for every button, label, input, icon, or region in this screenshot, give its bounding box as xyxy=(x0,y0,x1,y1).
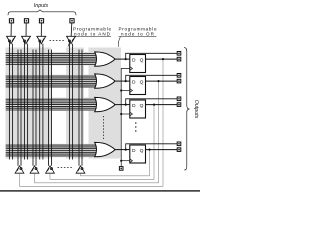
array vertical pair from F4 xyxy=(78,50,80,166)
row strip G1 xyxy=(6,52,122,65)
row strip G4 xyxy=(6,144,122,158)
clock branch FF2 xyxy=(121,90,130,92)
wire OR4 to D4 xyxy=(115,149,130,151)
OR column shading xyxy=(89,48,122,159)
dashed line between O3 O4 xyxy=(102,116,104,140)
output pin 1b xyxy=(177,57,181,61)
wire OR2 to D2 xyxy=(115,80,130,82)
output pin 3b xyxy=(177,103,181,107)
wire OR3 to D3 xyxy=(115,104,130,106)
input buffer B2 xyxy=(22,36,31,43)
svg-text:node to OR: node to OR xyxy=(121,31,155,36)
feedback buffer F1 xyxy=(15,166,24,173)
junction Q1 tap xyxy=(162,58,164,60)
wire pin3 stem xyxy=(40,23,42,40)
flip-flop FF3 xyxy=(130,100,146,118)
array vertical pair from B1 xyxy=(8,41,10,160)
svg-text:D: D xyxy=(132,148,136,154)
svg-text:Q: Q xyxy=(140,148,144,154)
input buffer B1 xyxy=(7,36,16,43)
wire tap up to pinA1 xyxy=(126,53,177,59)
flip-flop FF2 xyxy=(130,77,146,95)
wire tap up to pinA4 xyxy=(126,144,177,150)
flip-flop FF1 xyxy=(130,55,146,73)
dashes between B3 and B4 xyxy=(50,40,65,42)
junction Q4 tap xyxy=(148,149,150,151)
junction Q3 tap xyxy=(153,104,155,106)
feedback buffer F3 xyxy=(46,166,55,173)
dots between FF3 FF4 xyxy=(135,122,136,131)
svg-text:Inputs: Inputs xyxy=(34,3,49,9)
feedback wire FF1 xyxy=(20,59,164,186)
wire OR1 to D1 xyxy=(115,58,130,60)
feedback wire FF2 xyxy=(35,81,159,183)
output pin 3a xyxy=(177,97,181,101)
wire pin2 stem xyxy=(25,23,27,40)
svg-text:D: D xyxy=(132,103,136,109)
svg-text:Q: Q xyxy=(140,80,144,86)
svg-text:Outputs: Outputs xyxy=(193,100,199,119)
row3 wiring xyxy=(115,99,177,105)
wire Q3 to pinB3 xyxy=(146,104,178,106)
dashes between F3 and F4 xyxy=(58,167,73,169)
AND array shading mid panel xyxy=(66,48,84,159)
input pin I1 xyxy=(9,19,13,23)
array vertical pair from F2 xyxy=(32,50,34,166)
product term rows G4 xyxy=(6,145,99,156)
junction OR3 tap xyxy=(125,104,127,106)
input pin I3 xyxy=(39,19,43,23)
AND array shading left panel xyxy=(6,48,52,159)
input pin I2 xyxy=(24,19,28,23)
or gate O2 xyxy=(95,74,115,88)
wire Q4 to pinB4 xyxy=(146,149,178,151)
feedback buffer F4 xyxy=(76,166,85,173)
wire Q1 to pinB1 xyxy=(146,58,178,60)
flip-flop FF4 xyxy=(130,145,146,163)
output pin 2a xyxy=(177,74,181,78)
junction Q2 tap xyxy=(157,80,159,82)
feedback buffer F2 xyxy=(30,166,39,173)
junction OR2 tap xyxy=(125,80,127,82)
clock branch FF3 xyxy=(121,113,130,115)
clock trunk xyxy=(121,69,130,167)
brace inputs xyxy=(8,10,76,15)
output pin 1a xyxy=(177,52,181,56)
or gate O4 xyxy=(95,142,115,156)
row4 wiring xyxy=(115,144,177,150)
array vertical pair from B4 xyxy=(68,41,70,160)
svg-text:Q: Q xyxy=(140,58,144,64)
outputs brace xyxy=(184,48,190,170)
clock pin xyxy=(119,167,123,171)
array vertical pair from F1 xyxy=(17,50,19,166)
row2 wiring xyxy=(115,75,177,81)
wire tap up to pinA3 xyxy=(126,99,177,105)
wire pin1 stem xyxy=(10,23,12,40)
wire pin4 stem xyxy=(70,23,73,40)
svg-text:D: D xyxy=(132,58,136,64)
or gate O3 xyxy=(95,97,115,111)
array vertical pair from F3 xyxy=(48,50,50,166)
junction OR1 tap xyxy=(125,58,127,60)
output pin 4b xyxy=(177,148,181,152)
input buffer B3 xyxy=(37,36,46,43)
product term rows G2 xyxy=(6,76,99,87)
input pin I4 xyxy=(70,19,74,23)
row strip G3 xyxy=(6,98,122,111)
output pin 4a xyxy=(177,142,181,146)
wire Q2 to pinB2 xyxy=(146,80,178,82)
row1 wiring xyxy=(115,53,177,59)
output pin 2b xyxy=(177,79,181,83)
leader AND label xyxy=(68,37,75,47)
product term rows G1 xyxy=(6,54,99,65)
wire tap up to pinA2 xyxy=(126,75,177,81)
or gate O1 xyxy=(95,52,115,66)
bottom border line xyxy=(0,190,200,191)
feedback wire FF4 xyxy=(81,150,150,176)
svg-text:node to AND: node to AND xyxy=(74,31,111,36)
input buffer B4 xyxy=(67,36,76,43)
svg-text:Q: Q xyxy=(140,103,144,109)
array vertical pair from B3 xyxy=(39,41,41,160)
svg-text:D: D xyxy=(132,80,136,86)
junction OR4 tap xyxy=(125,149,127,151)
leader OR label xyxy=(118,37,120,47)
clock branch FF4 xyxy=(121,160,130,162)
array vertical pair from B2 xyxy=(23,41,25,160)
product term rows G3 xyxy=(6,99,99,110)
feedback wire FF3 xyxy=(50,105,154,180)
row strip G2 xyxy=(6,75,122,88)
